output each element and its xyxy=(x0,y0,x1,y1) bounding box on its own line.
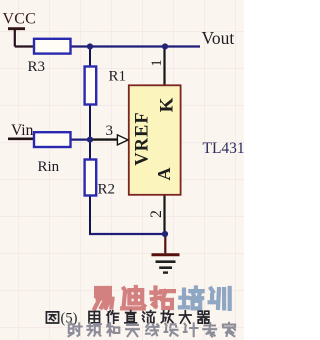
svg-text:2: 2 xyxy=(148,210,165,218)
svg-text:Vout: Vout xyxy=(202,28,235,48)
svg-text:3: 3 xyxy=(106,123,114,139)
svg-text:1: 1 xyxy=(149,59,165,67)
svg-text:VREF: VREF xyxy=(133,111,153,165)
svg-text:TL431: TL431 xyxy=(203,140,245,157)
svg-text:R1: R1 xyxy=(109,69,127,85)
svg-text:R2: R2 xyxy=(98,182,116,198)
svg-text:R3: R3 xyxy=(28,59,46,75)
svg-text:Rin: Rin xyxy=(38,159,60,175)
svg-text:K: K xyxy=(157,97,178,112)
svg-text:A: A xyxy=(154,168,174,181)
svg-text:VCC: VCC xyxy=(3,11,37,28)
svg-text:Vin: Vin xyxy=(11,122,34,139)
